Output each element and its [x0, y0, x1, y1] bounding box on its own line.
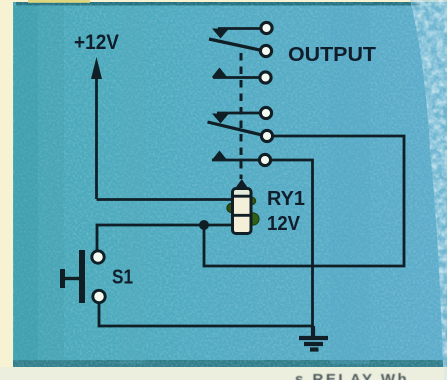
- +12V arrow: [91, 57, 102, 199]
- ground symbol: [299, 326, 328, 350]
- relay RY1 mechanical link (dashed): [240, 53, 243, 179]
- svg-text:S1: S1: [112, 267, 133, 289]
- relay contact pole B: NC terminal: [212, 107, 272, 123]
- svg-text:s RELAY Wh: s RELAY Wh: [295, 371, 409, 380]
- svg-text:12V: 12V: [267, 213, 301, 235]
- relay contact pole A: NO terminal: [212, 68, 272, 84]
- svg-text:+12V: +12V: [74, 31, 119, 54]
- relay coil RY1 12V: [227, 179, 259, 234]
- wire +12V to relay coil top terminal: [97, 198, 233, 201]
- relay contact pole B: NO terminal: [212, 151, 271, 166]
- wire latch loop: junction to pole-B common: [204, 136, 404, 266]
- node junction (coil bottom / S1 / latch wire): [199, 220, 209, 230]
- pushbutton switch S1: [60, 250, 105, 303]
- wire pole-B NO contact to ground bus: [271, 160, 313, 326]
- relay contact pole A: NC terminal: [212, 22, 272, 38]
- relay contact pole B: movable blade + common terminal: [208, 122, 273, 142]
- wire S1 top to coil bottom terminal: [97, 225, 232, 250]
- svg-text:RY1: RY1: [267, 188, 305, 210]
- relay contact pole A: movable blade + common terminal: [209, 39, 272, 57]
- svg-text:OUTPUT: OUTPUT: [288, 43, 376, 66]
- wire S1 bottom to ground: [99, 303, 313, 326]
